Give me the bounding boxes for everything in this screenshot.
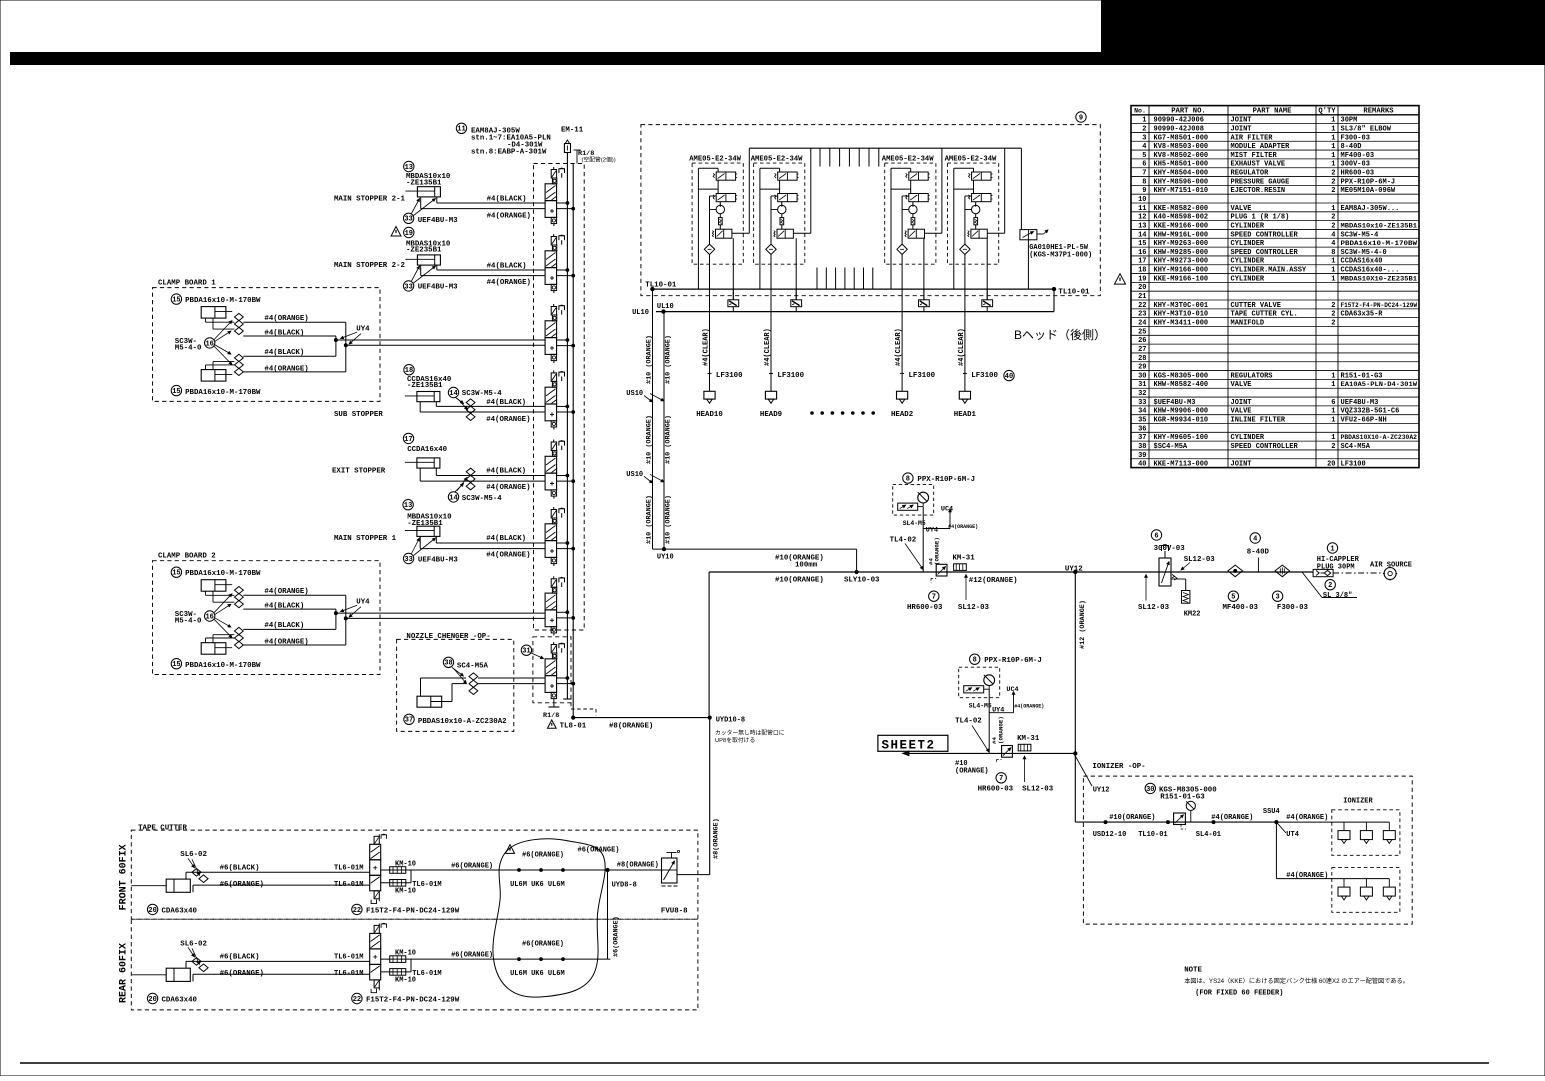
svg-text:F300-03: F300-03 bbox=[1341, 134, 1370, 142]
svg-text:(KGS-M37P1-000): (KGS-M37P1-000) bbox=[1029, 252, 1092, 260]
svg-text:5: 5 bbox=[1142, 152, 1146, 160]
svg-text:1: 1 bbox=[1331, 152, 1335, 160]
svg-text:#4(BLACK): #4(BLACK) bbox=[486, 535, 526, 543]
wire #4(ORANGE) stopper 2-2 bbox=[420, 265, 422, 276]
svg-text:CYLINDER: CYLINDER bbox=[1231, 222, 1265, 230]
svg-text:2: 2 bbox=[1331, 222, 1335, 230]
svg-text:HR600-03: HR600-03 bbox=[907, 604, 943, 612]
check valve LF fitting module 1 bbox=[728, 289, 739, 312]
HEAD9 nozzle and line bbox=[760, 289, 805, 419]
cylinder MAIN STOPPER 2-1 bbox=[405, 187, 440, 197]
ionizer nozzles row 1 bbox=[1276, 822, 1395, 843]
svg-text:29: 29 bbox=[1138, 364, 1146, 372]
svg-text:IONIZER -OP-: IONIZER -OP- bbox=[1092, 763, 1145, 771]
svg-text:VQZ332B-5G1-C6: VQZ332B-5G1-C6 bbox=[1341, 408, 1400, 416]
svg-text:HR600-03: HR600-03 bbox=[978, 785, 1014, 793]
svg-text:KM-31: KM-31 bbox=[953, 554, 976, 562]
svg-text:#8(ORANGE): #8(ORANGE) bbox=[617, 862, 659, 870]
svg-text:JOINT: JOINT bbox=[1231, 399, 1252, 407]
wire #4(BLACK) sub stopper bbox=[435, 402, 437, 407]
svg-text:REGULATORS: REGULATORS bbox=[1231, 372, 1273, 380]
warning triangle note 2 beside table row 19 bbox=[1114, 274, 1125, 284]
svg-text:1: 1 bbox=[1331, 417, 1335, 425]
svg-text:#4(ORANGE): #4(ORANGE) bbox=[1014, 703, 1044, 709]
valve GA010HE1-PL-5W bbox=[1020, 148, 1048, 289]
svg-text:TL10-01: TL10-01 bbox=[645, 281, 677, 289]
svg-text:CDA63x40: CDA63x40 bbox=[162, 907, 198, 915]
svg-text:EM-11: EM-11 bbox=[561, 126, 584, 134]
callout 13 (MBDAS10x10-ZE135B1) main stopper 1 bbox=[403, 500, 413, 510]
svg-text:2: 2 bbox=[1331, 214, 1335, 222]
svg-text:PBDA16x10-M-170BW: PBDA16x10-M-170BW bbox=[185, 570, 261, 578]
ionizer dashed box bbox=[1083, 776, 1412, 924]
pressure gauge assembly 8 (lower) PPX-R10P-6M-J bbox=[959, 654, 1042, 710]
valve module AME05-E2-34W #3 bbox=[882, 148, 942, 300]
svg-text:23: 23 bbox=[1138, 311, 1146, 319]
svg-text:SPEED CONTROLLER: SPEED CONTROLLER bbox=[1231, 231, 1299, 239]
callout 13 (MBDAS10x10-ZE135B1) bbox=[404, 161, 414, 171]
svg-text:#8(ORANGE): #8(ORANGE) bbox=[609, 723, 653, 731]
svg-text:16: 16 bbox=[205, 340, 213, 348]
svg-text:6: 6 bbox=[1331, 399, 1335, 407]
svg-text:22: 22 bbox=[353, 907, 361, 915]
svg-text:AME05-E2-34W: AME05-E2-34W bbox=[751, 156, 803, 164]
solenoid valve station 7 bbox=[545, 576, 575, 635]
svg-text:KGR-M9934-010: KGR-M9934-010 bbox=[1154, 417, 1209, 425]
svg-text:REMARKS: REMARKS bbox=[1363, 108, 1394, 116]
svg-text:(空配管(2個)): (空配管(2個)) bbox=[582, 156, 616, 164]
svg-text:KHW-M8582-400: KHW-M8582-400 bbox=[1154, 381, 1209, 389]
svg-text:8: 8 bbox=[1331, 249, 1335, 257]
svg-text:26: 26 bbox=[1138, 337, 1146, 345]
svg-text:37: 37 bbox=[1138, 434, 1146, 442]
svg-text:CCDAS16x40: CCDAS16x40 bbox=[1341, 258, 1383, 266]
svg-text:34: 34 bbox=[1138, 408, 1146, 416]
SL 3/8 callout 2 bbox=[1325, 580, 1335, 590]
svg-text:2: 2 bbox=[1331, 178, 1335, 186]
svg-text:UT4: UT4 bbox=[1286, 831, 1299, 839]
svg-text:27: 27 bbox=[1138, 346, 1146, 354]
svg-text:PBDAS10x10-A-ZC230A2: PBDAS10x10-A-ZC230A2 bbox=[418, 718, 507, 726]
svg-text:KV8-M8503-000: KV8-M8503-000 bbox=[1154, 143, 1209, 151]
svg-text:SPEED CONTROLLER: SPEED CONTROLLER bbox=[1231, 443, 1299, 451]
svg-text:8: 8 bbox=[1142, 178, 1146, 186]
svg-text:2: 2 bbox=[1331, 311, 1335, 319]
svg-text:#4(ORANGE): #4(ORANGE) bbox=[486, 416, 530, 424]
svg-text:7: 7 bbox=[1142, 170, 1146, 178]
svg-text:#4(CLEAR): #4(CLEAR) bbox=[703, 328, 711, 366]
svg-text:20: 20 bbox=[1327, 461, 1335, 469]
svg-text:CLAMP BOARD 1: CLAMP BOARD 1 bbox=[158, 280, 216, 288]
svg-text:CYLINDER: CYLINDER bbox=[1231, 240, 1265, 248]
svg-text:EAM8AJ-305W...: EAM8AJ-305W... bbox=[1341, 205, 1400, 213]
svg-text:1: 1 bbox=[1331, 372, 1335, 380]
svg-text:KKE-M8582-000: KKE-M8582-000 bbox=[1154, 205, 1209, 213]
main air line bbox=[709, 571, 1313, 573]
svg-text:PART NO.: PART NO. bbox=[1171, 108, 1206, 116]
ionizer branch to row 2 bbox=[1275, 822, 1277, 879]
svg-text:1: 1 bbox=[1331, 125, 1335, 133]
svg-text:KHW-M916L-000: KHW-M916L-000 bbox=[1154, 231, 1209, 239]
svg-text:#4(CLEAR): #4(CLEAR) bbox=[895, 328, 903, 366]
svg-text:11: 11 bbox=[457, 126, 465, 134]
svg-text:2: 2 bbox=[1331, 187, 1335, 195]
svg-text:22: 22 bbox=[353, 996, 361, 1004]
svg-text:7: 7 bbox=[932, 594, 936, 602]
rear riser #6(ORANGE) bbox=[607, 870, 609, 959]
svg-text:LF3100: LF3100 bbox=[1341, 461, 1366, 469]
pressure gauge assembly 8 (upper) PPX-R10P-6M-J bbox=[893, 473, 975, 527]
black corner block bbox=[1101, 0, 1545, 65]
svg-text:15: 15 bbox=[172, 661, 180, 669]
svg-text:CDA63x35-R: CDA63x35-R bbox=[1341, 311, 1384, 319]
svg-text:UY12: UY12 bbox=[1093, 786, 1110, 794]
ionizer supply line bbox=[1075, 821, 1276, 823]
black title bar bbox=[10, 52, 1545, 65]
svg-text:FRONT 60FIX: FRONT 60FIX bbox=[119, 844, 130, 910]
svg-text:#4(ORANGE): #4(ORANGE) bbox=[487, 212, 531, 220]
svg-text:#4(BLACK): #4(BLACK) bbox=[264, 349, 304, 357]
svg-text:US10: US10 bbox=[626, 471, 643, 479]
svg-text:SL6-02: SL6-02 bbox=[180, 851, 207, 859]
svg-text:CLAMP BOARD 2: CLAMP BOARD 2 bbox=[158, 553, 216, 561]
svg-text:#10 (ORANGE): #10 (ORANGE) bbox=[646, 415, 654, 464]
svg-text:8: 8 bbox=[973, 657, 977, 665]
head manifold outer dashed box bbox=[641, 125, 1100, 296]
svg-text:#4(ORANGE): #4(ORANGE) bbox=[264, 315, 308, 323]
svg-text:#6(ORANGE): #6(ORANGE) bbox=[451, 951, 493, 959]
check valve LF fitting module 3 bbox=[919, 289, 930, 312]
wire #4(ORANGE) main stopper 1 bbox=[419, 536, 421, 548]
valve module AME05-E2-34W #1 bbox=[689, 148, 749, 300]
UYD10-8 node bbox=[708, 716, 711, 719]
svg-text:30: 30 bbox=[1146, 786, 1154, 794]
svg-text:PPX-R10P-6M-J: PPX-R10P-6M-J bbox=[984, 657, 1042, 665]
CLAMP BOARD 2 assembly (cylinders 15, speed controllers 16, node UY4) bbox=[153, 553, 546, 675]
svg-text:KGS-M8305-000: KGS-M8305-000 bbox=[1154, 372, 1209, 380]
check valve LF fitting module 2 bbox=[791, 289, 802, 312]
svg-text:SL6-02: SL6-02 bbox=[180, 940, 207, 948]
hi-cappler plug 1 bbox=[1327, 543, 1337, 553]
callout 33 UEF4BU-M3 (stopper 2-1) bbox=[403, 213, 413, 223]
exhaust valve 6 300V-03 with silencer KM22 bbox=[1159, 545, 1190, 604]
svg-text:LF3100: LF3100 bbox=[777, 372, 804, 380]
bus stub comb (omitted modules) bbox=[820, 148, 879, 166]
svg-text:KHW-M9906-000: KHW-M9906-000 bbox=[1154, 408, 1209, 416]
svg-text:-ZE235B1: -ZE235B1 bbox=[406, 247, 442, 255]
svg-text:90990-42J006: 90990-42J006 bbox=[1154, 117, 1204, 125]
svg-text:#6(ORANGE): #6(ORANGE) bbox=[612, 916, 620, 957]
svg-text:MAIN STOPPER 1: MAIN STOPPER 1 bbox=[334, 535, 397, 543]
valve EM-11 inlet symbol bbox=[565, 140, 569, 144]
svg-text:24: 24 bbox=[1138, 319, 1146, 327]
svg-text:SL 3/8": SL 3/8" bbox=[1323, 592, 1352, 600]
svg-text:VALVE: VALVE bbox=[1231, 408, 1252, 416]
svg-text:MANIFOLD: MANIFOLD bbox=[1231, 319, 1265, 327]
svg-text:21: 21 bbox=[1138, 293, 1146, 301]
svg-text:USD12-10: USD12-10 bbox=[1093, 831, 1127, 839]
tape cutter REAR dashed box bbox=[131, 919, 698, 1010]
svg-text:38: 38 bbox=[1138, 443, 1146, 451]
svg-text:3: 3 bbox=[1142, 134, 1146, 142]
svg-text:MBDAS10X10-ZE235B1: MBDAS10X10-ZE235B1 bbox=[1341, 275, 1418, 282]
svg-text:SHEET2: SHEET2 bbox=[882, 739, 936, 753]
svg-text:SC3W-M5-4: SC3W-M5-4 bbox=[1341, 231, 1379, 239]
svg-text:F15T2-F4-PN-DC24-129W: F15T2-F4-PN-DC24-129W bbox=[1341, 302, 1418, 309]
svg-text:PPX-R10P-6M-J: PPX-R10P-6M-J bbox=[1341, 178, 1396, 186]
svg-text:14: 14 bbox=[449, 390, 457, 398]
svg-text:SL4-M5: SL4-M5 bbox=[969, 703, 992, 710]
solenoid valve station 2 bbox=[545, 234, 575, 293]
svg-text:2: 2 bbox=[1331, 170, 1335, 178]
svg-text:2: 2 bbox=[1328, 582, 1332, 590]
svg-text:#4(BLACK): #4(BLACK) bbox=[264, 622, 304, 630]
regulator 30 R151-01-G3 bbox=[1174, 801, 1196, 829]
svg-text:UL10: UL10 bbox=[632, 309, 649, 317]
UY12 leader (ionizer) bbox=[1075, 756, 1092, 786]
svg-text:UL10: UL10 bbox=[657, 303, 674, 311]
callout 18 (CCDAS16x40-ZE135B1) bbox=[404, 365, 414, 375]
svg-text:14: 14 bbox=[1138, 231, 1146, 239]
svg-text:KH5-M8501-000: KH5-M8501-000 bbox=[1154, 161, 1209, 169]
svg-text:31: 31 bbox=[1138, 381, 1146, 389]
svg-text:F15T2-F4-PN-DC24-129W: F15T2-F4-PN-DC24-129W bbox=[366, 907, 460, 915]
svg-text:#4(ORANGE): #4(ORANGE) bbox=[487, 279, 531, 287]
svg-text:UY4: UY4 bbox=[356, 599, 370, 607]
svg-text:20: 20 bbox=[1138, 284, 1146, 292]
svg-text:1: 1 bbox=[1331, 134, 1335, 142]
svg-text:1: 1 bbox=[1331, 205, 1335, 213]
speed controllers SC3W-M5-4 (sub stopper) bbox=[466, 399, 475, 421]
svg-text:CYLINDER: CYLINDER bbox=[1231, 434, 1265, 442]
svg-text:TL6-01M: TL6-01M bbox=[334, 864, 363, 872]
svg-text:20: 20 bbox=[148, 907, 156, 915]
svg-text:#6(ORANGE): #6(ORANGE) bbox=[578, 847, 620, 855]
svg-text:ME05M10A-096W: ME05M10A-096W bbox=[1341, 187, 1396, 195]
svg-text:LF3100: LF3100 bbox=[716, 372, 743, 380]
svg-text:13: 13 bbox=[1138, 222, 1146, 230]
wire #4(ORANGE) exit stopper bbox=[419, 468, 421, 481]
supply rail 2 (R1/8) bbox=[572, 164, 574, 718]
wire nozzle changer lower bbox=[448, 701, 452, 703]
svg-text:HEAD1: HEAD1 bbox=[954, 411, 977, 419]
SHEET2 box bbox=[878, 735, 948, 751]
svg-text:SC3W-M5-4: SC3W-M5-4 bbox=[462, 390, 502, 398]
svg-text:#4(ORANGE): #4(ORANGE) bbox=[264, 365, 308, 373]
gauge drop line UY4 (lower) bbox=[988, 689, 990, 753]
svg-text:SPEED CONTROLLER: SPEED CONTROLLER bbox=[1231, 249, 1299, 257]
svg-text:28: 28 bbox=[1138, 355, 1146, 363]
tape cutter FRONT row (cylinder 20, valve 22, KM-10) bbox=[131, 834, 610, 915]
svg-text:CUTTER VALVE: CUTTER VALVE bbox=[1231, 302, 1281, 310]
svg-text:MIST FILTER: MIST FILTER bbox=[1231, 152, 1278, 160]
svg-text:40: 40 bbox=[1005, 373, 1013, 381]
svg-text:#10 (ORANGE): #10 (ORANGE) bbox=[646, 495, 654, 544]
svg-text:UL6M UK6 UL6M: UL6M UK6 UL6M bbox=[510, 970, 565, 978]
svg-text:37: 37 bbox=[405, 717, 413, 725]
svg-text:KHY-M8504-000: KHY-M8504-000 bbox=[1154, 170, 1209, 178]
svg-text:KM22: KM22 bbox=[1184, 611, 1201, 619]
svg-text:KHY-M9166-000: KHY-M9166-000 bbox=[1154, 267, 1209, 275]
svg-text:INLINE FILTER: INLINE FILTER bbox=[1231, 417, 1286, 425]
svg-text:MAIN STOPPER 2-1: MAIN STOPPER 2-1 bbox=[334, 195, 406, 203]
speed controllers SC3W-M5-4 (exit stopper) bbox=[466, 468, 475, 490]
svg-text:EXIT STOPPER: EXIT STOPPER bbox=[332, 468, 386, 476]
callout 11 EAM8AJ-305W bbox=[456, 123, 466, 133]
svg-text:KHY-M3T0C-001: KHY-M3T0C-001 bbox=[1154, 302, 1209, 310]
svg-text:VALVE: VALVE bbox=[1231, 381, 1252, 389]
svg-text:13: 13 bbox=[405, 164, 413, 172]
svg-text:13: 13 bbox=[404, 502, 412, 510]
svg-text:UP8を取付ける: UP8を取付ける bbox=[715, 736, 755, 744]
svg-text:14: 14 bbox=[449, 494, 457, 502]
svg-text:KG7-M8501-000: KG7-M8501-000 bbox=[1154, 134, 1209, 142]
svg-text:JOINT: JOINT bbox=[1231, 125, 1252, 133]
svg-text:PBDAS10X10-A-ZC230A2: PBDAS10X10-A-ZC230A2 bbox=[1341, 434, 1418, 441]
callout 33 UEF4BU-M3 (stopper 2-2) bbox=[403, 281, 413, 291]
svg-text:4: 4 bbox=[1253, 535, 1257, 543]
regulator 7 HR600-03 (upper) bbox=[936, 564, 947, 576]
svg-text:PPX-R10P-6M-J: PPX-R10P-6M-J bbox=[917, 476, 975, 484]
svg-text:17: 17 bbox=[404, 436, 412, 444]
cylinder MAIN STOPPER 1 bbox=[405, 526, 440, 536]
svg-text:VALVE: VALVE bbox=[1231, 205, 1252, 213]
svg-text:5: 5 bbox=[1231, 594, 1235, 602]
svg-text:CCDA16x40: CCDA16x40 bbox=[407, 446, 447, 454]
svg-text:100mm: 100mm bbox=[795, 562, 818, 570]
svg-text:AME05-E2-34W: AME05-E2-34W bbox=[882, 156, 934, 164]
callout 31 with leader bbox=[521, 645, 531, 655]
svg-text:7: 7 bbox=[999, 775, 1003, 783]
svg-text:UY10: UY10 bbox=[657, 553, 674, 561]
svg-text:FVU8-8: FVU8-8 bbox=[661, 908, 688, 916]
svg-text:K40-M8598-002: K40-M8598-002 bbox=[1154, 214, 1209, 222]
svg-text:MBDAS10x10-ZE135B1: MBDAS10x10-ZE135B1 bbox=[1341, 222, 1418, 229]
svg-text:SC3W-M5-4-0: SC3W-M5-4-0 bbox=[1341, 249, 1387, 257]
svg-text:EA10A5-PLN-D4-301W: EA10A5-PLN-D4-301W bbox=[1341, 381, 1418, 388]
svg-text:R151-01-G3: R151-01-G3 bbox=[1160, 793, 1205, 801]
svg-text:LF3100: LF3100 bbox=[971, 372, 998, 380]
cylinder SUB STOPPER bbox=[405, 392, 440, 402]
svg-text:-ZE135B1: -ZE135B1 bbox=[407, 520, 443, 528]
svg-text:SL12-03: SL12-03 bbox=[1184, 556, 1216, 564]
svg-text:REGULATOR: REGULATOR bbox=[1231, 170, 1270, 178]
svg-text:TAPE CUTTER: TAPE CUTTER bbox=[138, 824, 187, 832]
svg-text:300V-03: 300V-03 bbox=[1154, 545, 1186, 553]
svg-text:SL4-01: SL4-01 bbox=[1196, 831, 1221, 839]
svg-text:#6(BLACK): #6(BLACK) bbox=[220, 953, 260, 961]
svg-text:SLY10-03: SLY10-03 bbox=[844, 576, 880, 584]
svg-text:1: 1 bbox=[1331, 161, 1335, 169]
svg-text:TL4-02: TL4-02 bbox=[890, 536, 917, 544]
mist filter 5 MF400-03 bbox=[1223, 565, 1259, 612]
svg-text:UY4: UY4 bbox=[992, 707, 1004, 715]
solenoid valve station 4 bbox=[545, 370, 575, 429]
svg-text:TL10-01: TL10-01 bbox=[1138, 831, 1167, 839]
svg-text:15: 15 bbox=[172, 388, 180, 396]
svg-text:UEF4BU-M3: UEF4BU-M3 bbox=[418, 217, 458, 225]
svg-text:#4(ORANGE): #4(ORANGE) bbox=[264, 588, 308, 596]
svg-text:NOZZLE CHENGER -OP-: NOZZLE CHENGER -OP- bbox=[406, 633, 490, 641]
pilot air bus bbox=[749, 147, 1021, 149]
drop line A #10 (from TL10-01) bbox=[652, 289, 654, 549]
svg-text:PBDA16x10-M-170BW: PBDA16x10-M-170BW bbox=[185, 662, 261, 670]
wire #4(BLACK) stopper 2-1 bbox=[436, 197, 438, 203]
svg-text:KKE-M7113-000: KKE-M7113-000 bbox=[1154, 461, 1209, 469]
speed controllers SC4-M5A bbox=[469, 673, 478, 695]
svg-text:UC4: UC4 bbox=[941, 506, 953, 514]
svg-text:UEF4BU-M3: UEF4BU-M3 bbox=[418, 284, 458, 292]
svg-text:Bヘッド（後側）: Bヘッド（後側） bbox=[1014, 328, 1106, 342]
svg-text:18: 18 bbox=[405, 367, 413, 375]
svg-text:UY4: UY4 bbox=[356, 325, 370, 333]
NOZZLE CHENGER -OP- dashed box bbox=[397, 633, 514, 731]
svg-text:30: 30 bbox=[1138, 372, 1146, 380]
svg-text:38: 38 bbox=[444, 660, 452, 668]
valve manifold EM-11 dashed enclosure bbox=[534, 164, 585, 631]
svg-text:18: 18 bbox=[1138, 267, 1146, 275]
svg-text:UEF4BU-M3: UEF4BU-M3 bbox=[1341, 399, 1379, 407]
svg-text:11: 11 bbox=[1138, 205, 1146, 213]
svg-text:1: 1 bbox=[1331, 117, 1335, 125]
svg-text:17: 17 bbox=[1138, 258, 1146, 266]
HEAD1 nozzle and line bbox=[954, 289, 999, 419]
svg-text:#6(BLACK): #6(BLACK) bbox=[220, 864, 260, 872]
svg-text:CYLINDER: CYLINDER bbox=[1231, 275, 1265, 283]
svg-text:JOINT: JOINT bbox=[1231, 461, 1252, 469]
svg-text:SC4-M5A: SC4-M5A bbox=[457, 663, 489, 671]
svg-text:HEAD9: HEAD9 bbox=[760, 411, 782, 419]
svg-text:KV8-M8502-000: KV8-M8502-000 bbox=[1154, 152, 1209, 160]
#8(ORANGE) drop to tape cutter bbox=[709, 718, 711, 875]
svg-text:#6(ORANGE): #6(ORANGE) bbox=[522, 940, 564, 948]
manifold rail TL10-01 bbox=[652, 288, 1054, 290]
svg-text:F15T2-F4-PN-DC24-129W: F15T2-F4-PN-DC24-129W bbox=[366, 996, 460, 1004]
check valve LF fitting module 4 bbox=[982, 289, 993, 312]
svg-text:TL6-01M: TL6-01M bbox=[334, 881, 363, 889]
svg-text:#4(CLEAR): #4(CLEAR) bbox=[958, 328, 966, 366]
svg-text:EJECTOR.RESIN: EJECTOR.RESIN bbox=[1231, 187, 1286, 195]
svg-text:#4(BLACK): #4(BLACK) bbox=[487, 263, 527, 271]
svg-text:1: 1 bbox=[1142, 117, 1146, 125]
svg-text:PART NAME: PART NAME bbox=[1253, 108, 1293, 116]
solenoid valve station 6 bbox=[545, 507, 575, 566]
svg-text:SL4-M5: SL4-M5 bbox=[903, 520, 926, 527]
svg-text:(ORANGE): (ORANGE) bbox=[934, 537, 941, 565]
svg-text:$UEF4BU-M3: $UEF4BU-M3 bbox=[1154, 399, 1196, 407]
svg-text:MF400-03: MF400-03 bbox=[1341, 152, 1375, 160]
air filter 3 F300-03 bbox=[1272, 565, 1308, 612]
svg-text:#4(ORANGE): #4(ORANGE) bbox=[1286, 872, 1328, 880]
svg-text:40: 40 bbox=[1138, 461, 1146, 469]
svg-text:9: 9 bbox=[1142, 187, 1146, 195]
svg-text:KM-31: KM-31 bbox=[1017, 735, 1040, 743]
check valve KM-31 (lower) bbox=[1018, 744, 1031, 751]
wire #4(BLACK) exit stopper bbox=[435, 468, 437, 475]
svg-text:US10: US10 bbox=[626, 390, 643, 398]
HEAD10 nozzle and line bbox=[696, 289, 743, 419]
svg-text:TL6-01M: TL6-01M bbox=[334, 970, 363, 978]
svg-text:#4(ORANGE): #4(ORANGE) bbox=[1286, 814, 1328, 822]
svg-text:KKE-M9166-100: KKE-M9166-100 bbox=[1154, 275, 1209, 283]
svg-text:#4(BLACK): #4(BLACK) bbox=[264, 603, 304, 611]
callout 38 SC4-M5A bbox=[443, 657, 453, 667]
solenoid valve station 3 bbox=[545, 304, 575, 363]
svg-text:CDA63x40: CDA63x40 bbox=[162, 996, 198, 1004]
rail corner connector bbox=[1053, 289, 1055, 312]
svg-text:TL6-01M: TL6-01M bbox=[412, 881, 441, 889]
svg-text:#6(ORANGE): #6(ORANGE) bbox=[451, 862, 493, 870]
